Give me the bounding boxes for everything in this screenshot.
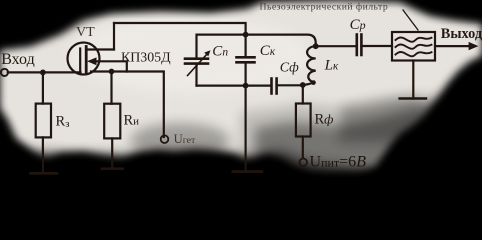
wire: Cr to filter — [361, 45, 392, 47]
inductor Lk coil arcs — [307, 46, 316, 82]
node: input/R3 junction — [40, 70, 46, 76]
drain stub — [86, 48, 114, 50]
paper shading: bottom-right dimming — [255, 96, 482, 190]
bottom bus wire — [197, 84, 271, 86]
svg-text:Rф: Rф — [315, 112, 334, 128]
resistor Ri — [104, 104, 120, 139]
svg-text:Lк: Lк — [324, 57, 339, 73]
paper shading: Uget dim patch — [130, 123, 230, 159]
paper shading: top text strip — [250, 0, 415, 2]
piezo filter box U1 — [392, 32, 435, 61]
node: bus/Ck junction — [243, 83, 249, 89]
paper shading: filter-ground lower dim — [338, 95, 430, 142]
paper shading: right lower edge — [382, 58, 482, 176]
capacitor Cp (trimmer) plates — [185, 57, 208, 60]
wire: Ck stem — [245, 35, 247, 58]
paper shading: top edge strip — [95, 0, 250, 11]
wire: filter to ground — [412, 61, 414, 99]
wire: Cp bottom stem — [195, 64, 197, 86]
svg-text:Rи: Rи — [124, 113, 140, 129]
wire: Rf to Upit — [302, 137, 304, 159]
node: source/Ri junction — [109, 69, 115, 75]
leader line to label — [403, 10, 418, 30]
node: coil tap — [313, 43, 319, 49]
wire: to coil top — [246, 35, 316, 47]
output arrowhead — [469, 42, 479, 50]
source wire to Uget corner — [91, 72, 164, 138]
trimmer arrow — [188, 54, 208, 76]
svg-text:Пьезоэлектрический фильтр: Пьезоэлектрический фильтр — [260, 1, 389, 12]
node: top tank junction — [243, 32, 249, 38]
wire: Cf to node — [277, 84, 303, 86]
wire: Cp stem top run — [197, 35, 246, 58]
terminal Upit (open circle) — [299, 159, 307, 167]
svg-text:Выход: Выход — [441, 26, 482, 42]
drain riser — [113, 23, 115, 50]
svg-text:Cр: Cр — [350, 17, 366, 33]
capacitor Cr plates — [355, 35, 358, 56]
wire: Ri to ground — [111, 138, 113, 168]
svg-text:Cк: Cк — [260, 43, 276, 59]
capacitor Ck plates — [237, 56, 255, 59]
paper shading: bottom fade — [0, 142, 482, 187]
wire: coil bottom curve — [303, 82, 314, 85]
svg-text:Uпит=6В: Uпит=6В — [310, 153, 367, 170]
substrate arrowhead — [87, 57, 97, 65]
wavy resonator marks — [396, 37, 432, 41]
channel bar — [85, 47, 88, 73]
paper shading: top-right corner — [412, 0, 482, 16]
wire: down to Ri — [110, 72, 112, 104]
svg-text:Uгет: Uгет — [174, 132, 196, 146]
svg-text:КП305Д: КП305Д — [121, 51, 171, 66]
input terminal (open circle) — [1, 69, 8, 76]
wire: input to gate — [8, 71, 81, 73]
wire: Ck to bottom bus — [245, 62, 247, 85]
ground bar under Ck branch — [233, 170, 262, 173]
wire: tap to Cr — [316, 45, 357, 47]
gate bar — [79, 49, 81, 71]
black scanner background — [0, 0, 482, 177]
output wire — [435, 45, 470, 47]
svg-text:Вход: Вход — [1, 51, 35, 68]
node: Cf/Rf/coil junction — [300, 82, 306, 88]
wire: R3 to ground — [42, 137, 44, 173]
paper shading: top-left corner — [0, 0, 114, 46]
wire: down to R3 — [42, 72, 44, 103]
terminal Uget (open circle) — [161, 135, 169, 143]
transistor VT body circle — [68, 43, 100, 75]
resistor Rf — [296, 104, 311, 137]
svg-text:VT: VT — [76, 25, 95, 40]
wire: Rf branch — [302, 85, 304, 104]
ground bar under Ri — [102, 167, 123, 170]
top wire — [114, 23, 246, 35]
svg-text:Cп: Cп — [212, 44, 228, 60]
svg-text:Cф: Cф — [280, 60, 299, 76]
paper clipping blob — [0, 0, 482, 172]
capacitor Cf plates — [270, 79, 273, 94]
paper shading: bottom-right extra vignette — [240, 88, 482, 190]
substrate wire with leg — [95, 61, 127, 71]
node: coil bottom — [311, 80, 316, 85]
resistor R3 — [36, 104, 51, 138]
ground bar under filter — [400, 97, 426, 100]
ground bar under R3 — [30, 172, 57, 175]
paper highlight: center sheen — [70, 17, 310, 93]
wire: Ck branch to ground — [245, 86, 247, 172]
paper shading: bottom fade 2 — [0, 154, 482, 187]
